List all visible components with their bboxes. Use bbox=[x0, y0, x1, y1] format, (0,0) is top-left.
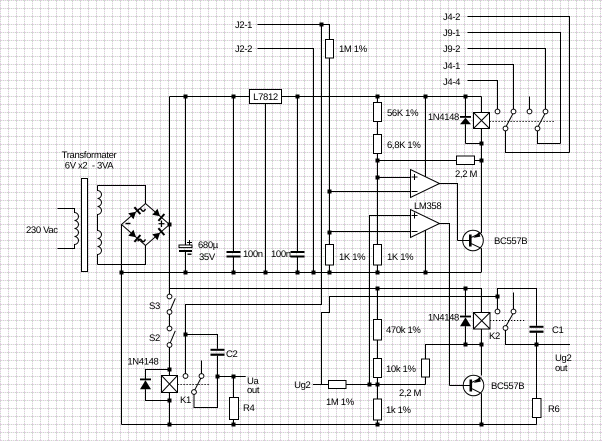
svg-text:6,8K 1%: 6,8K 1% bbox=[387, 140, 421, 151]
resistor 2,2M bottom bbox=[422, 359, 430, 377]
wire common1 to J4-2 bbox=[506, 131, 570, 153]
node 1K second at ground bbox=[376, 271, 380, 275]
wire Ug2 node jog to K2 switch bbox=[322, 297, 498, 385]
wire 2,2M top right lead bbox=[475, 160, 482, 162]
node rail 377 bbox=[376, 95, 380, 99]
switch K2 lever bbox=[506, 314, 513, 326]
switch lever 2 bbox=[538, 114, 545, 127]
node op2 minus junction bbox=[328, 231, 332, 235]
bridge diode D3 bottom-left bbox=[128, 230, 140, 242]
svg-text:6V x2 - 3VA: 6V x2 - 3VA bbox=[65, 161, 114, 172]
svg-text:L7812: L7812 bbox=[253, 92, 278, 103]
wire K2 coil bottom bbox=[481, 329, 483, 376]
wire Ug2 net to C1 top bbox=[498, 289, 537, 326]
wire op2 V- pin to ground bbox=[425, 231, 427, 273]
diode 1N4148 top-right bbox=[460, 97, 471, 144]
wire secondary top to bridge AC top bbox=[98, 186, 146, 204]
transformer primary winding bbox=[58, 209, 79, 249]
svg-text:R4: R4 bbox=[243, 403, 255, 414]
wire S3 to S2 bbox=[169, 314, 171, 326]
relay coil K top bbox=[474, 113, 490, 129]
resistor 1M 1% top bbox=[326, 40, 334, 59]
wire 1K second bottom bbox=[377, 265, 379, 273]
capacitor C2 bbox=[211, 349, 225, 377]
node R4 top junction bbox=[232, 375, 236, 379]
switch contact circle J9-2 bbox=[543, 109, 548, 114]
transistor Q1 BC557B bbox=[463, 230, 484, 272]
svg-text:1K 1%: 1K 1% bbox=[387, 252, 414, 263]
node L7812 gnd at ground rail bbox=[264, 271, 268, 275]
switch lever 1 bbox=[506, 114, 513, 127]
wire 1k bottom lead bbox=[377, 420, 379, 425]
node op1 plus junction bbox=[376, 176, 380, 180]
wire Ug2 stub bbox=[313, 384, 329, 386]
svg-text:1N4148: 1N4148 bbox=[127, 357, 158, 368]
switch K1 contact left bbox=[183, 374, 188, 379]
wire diode anode to coil bbox=[466, 143, 482, 145]
mechanical link K1 dotted bbox=[178, 384, 211, 386]
wire 2,2M bottom top lead bbox=[426, 345, 482, 385]
op-amp U1A triangle bbox=[411, 170, 440, 198]
wire R6 bottom lead bbox=[536, 418, 538, 425]
label 680u plus sign bbox=[187, 240, 192, 245]
node K2 diode tap bbox=[464, 287, 468, 291]
svg-text:J2-2: J2-2 bbox=[235, 44, 252, 55]
wire 56K top lead bbox=[377, 97, 379, 103]
wire op2 output bbox=[440, 224, 450, 386]
bridge rectifier diamond bbox=[122, 204, 170, 246]
wire K2 contact left stub bbox=[497, 297, 499, 310]
node K1 coil diode top junction bbox=[168, 368, 172, 372]
node rail 185 bbox=[184, 95, 188, 99]
svg-text:1K 1%: 1K 1% bbox=[339, 252, 366, 263]
node 100n-1 at ground bbox=[232, 271, 236, 275]
node K1 at bottom rail bbox=[168, 423, 172, 427]
wire R4 top lead bbox=[233, 377, 235, 398]
wire K1 contact right stub bbox=[201, 361, 203, 374]
wire J2-2 bbox=[258, 49, 314, 273]
node 10k 1k junction bbox=[376, 383, 380, 387]
node coil diode junction bbox=[480, 142, 484, 146]
label + bridge plus bbox=[159, 221, 165, 228]
wire stub unconnected contact bbox=[529, 97, 531, 110]
node 680u at ground bbox=[184, 271, 188, 275]
label op1 minus input bbox=[412, 191, 418, 193]
node 1k at bottom rail bbox=[376, 423, 380, 427]
node C1 bottom junction bbox=[535, 343, 539, 347]
resistor 1k 1% bottom bbox=[374, 399, 382, 420]
resistor 470k 1% bbox=[374, 320, 382, 341]
wire secondary bottom to bridge AC bottom bbox=[98, 246, 146, 265]
resistor 56K 1% bbox=[374, 103, 382, 122]
wire rail to coil top bbox=[481, 97, 483, 113]
label ~ top bbox=[138, 209, 146, 211]
switch K1 lever bbox=[195, 378, 201, 390]
wire K2 contact right stub bbox=[513, 293, 515, 310]
svg-text:470k 1%: 470k 1% bbox=[386, 325, 421, 336]
wire bridge minus to ground rail bbox=[121, 225, 123, 425]
svg-text:J4-2: J4-2 bbox=[443, 12, 460, 23]
switch K2 contact right bbox=[511, 309, 516, 314]
wire 2,2M top left lead bbox=[378, 160, 457, 162]
node C2 bottom junction bbox=[216, 375, 220, 379]
wire op1 output bbox=[440, 184, 458, 241]
node rail 425 bbox=[424, 95, 428, 99]
node 1K first at ground bbox=[328, 271, 332, 275]
node op V- at ground rail bbox=[424, 271, 428, 275]
svg-text:out: out bbox=[555, 363, 568, 374]
wire J4-4 bbox=[468, 81, 498, 110]
wire bottom ground rail bbox=[122, 424, 537, 426]
node 2,2M wire junction bbox=[376, 159, 380, 163]
node 100n-2 at ground bbox=[296, 271, 300, 275]
wire Ua out bbox=[218, 376, 246, 378]
switch S2 bbox=[167, 326, 175, 347]
svg-text:100n: 100n bbox=[271, 249, 291, 260]
label op2 plus input bbox=[412, 213, 418, 219]
transformer secondary winding bbox=[98, 186, 102, 265]
wire S2 to K1 coil bbox=[169, 347, 171, 375]
resistor 1K 1% second bbox=[374, 245, 382, 266]
transformer core bbox=[82, 179, 88, 272]
switch S3 bbox=[167, 294, 175, 314]
wire 1M bottom bus to 1K bbox=[329, 58, 331, 245]
svg-text:35V: 35V bbox=[199, 252, 216, 263]
svg-text:J9-2: J9-2 bbox=[443, 44, 460, 55]
mechanical link K2 dotted bbox=[490, 320, 526, 322]
wire op1 minus input bbox=[330, 191, 411, 193]
switch contact circle J4-1 bbox=[511, 109, 516, 114]
wire op1 out to Q1 base bbox=[458, 240, 470, 242]
label op2 minus input bbox=[412, 231, 418, 233]
capacitor C 100n second bbox=[291, 97, 305, 273]
wire K1 coil bottom to rail bbox=[169, 393, 171, 425]
wire J2-1 bus down bbox=[186, 25, 322, 374]
svg-text:56K 1%: 56K 1% bbox=[387, 108, 419, 119]
regulator U2 L7812 bbox=[250, 90, 282, 104]
wire 1K first bottom bbox=[329, 265, 331, 273]
wire Ug2 node horizontal bbox=[346, 384, 426, 386]
switch K2 contact left bbox=[495, 309, 500, 314]
svg-text:1N4148: 1N4148 bbox=[428, 112, 459, 123]
svg-text:C1: C1 bbox=[552, 325, 564, 336]
op-amp U1B triangle bbox=[411, 210, 440, 238]
node rail 297 bbox=[296, 95, 300, 99]
node R4 at bottom rail bbox=[232, 423, 236, 427]
svg-text:100n: 100n bbox=[243, 249, 263, 260]
svg-text:Ug2: Ug2 bbox=[294, 380, 310, 391]
svg-text:1M 1%: 1M 1% bbox=[326, 397, 355, 408]
bridge diode D1 top-left bbox=[128, 207, 140, 219]
svg-text:BC557B: BC557B bbox=[494, 236, 527, 247]
wire C2 branch bbox=[186, 335, 218, 349]
svg-text:1k 1%: 1k 1% bbox=[386, 405, 412, 416]
svg-text:2,2 M: 2,2 M bbox=[455, 169, 477, 180]
wire op2 plus input from x370 bus bbox=[370, 216, 411, 385]
node Q2 at bottom rail bbox=[480, 423, 484, 427]
wire 1k top lead bbox=[377, 385, 379, 400]
relay coil K2 bbox=[474, 313, 491, 330]
resistor 2,2 M top bbox=[457, 156, 475, 165]
svg-text:680µ: 680µ bbox=[198, 240, 219, 251]
wire K1 common to Ua node bbox=[194, 377, 218, 408]
svg-text:C2: C2 bbox=[226, 349, 238, 360]
svg-text:LM358: LM358 bbox=[414, 201, 441, 212]
diode 1N4148 K1 bbox=[140, 370, 170, 401]
capacitor C 680u 35V electrolytic bbox=[179, 97, 192, 273]
svg-text:S3: S3 bbox=[149, 301, 160, 312]
node J2-2 at ground rail bbox=[312, 271, 316, 275]
svg-text:2,2 M: 2,2 M bbox=[399, 388, 421, 399]
wire 470k to 10k bbox=[377, 340, 379, 359]
wire J9-1 bbox=[468, 33, 561, 144]
mechanical link relay top dotted bbox=[490, 121, 555, 123]
svg-text:230 Vac: 230 Vac bbox=[26, 225, 58, 236]
wire op1 V+ pin bbox=[425, 97, 427, 177]
diode 1N4148 K2 bbox=[460, 289, 471, 345]
svg-text:1N4148: 1N4148 bbox=[428, 313, 459, 324]
svg-text:R6: R6 bbox=[548, 404, 560, 415]
wire 56K to 6.8K bbox=[377, 122, 379, 135]
switch contact circle nc bbox=[527, 109, 532, 114]
wire J2-1 bbox=[258, 25, 330, 40]
svg-text:BC557B: BC557B bbox=[491, 381, 524, 392]
wire 10k bottom lead bbox=[377, 378, 379, 385]
node K2 coil bottom junction bbox=[480, 343, 484, 347]
node K1 coil diode bottom junction bbox=[168, 399, 172, 403]
resistor 1K 1% first bbox=[326, 245, 334, 266]
wire R6 top lead bbox=[536, 345, 538, 399]
svg-text:K2: K2 bbox=[489, 331, 500, 342]
resistor 1M 1% bottom bbox=[329, 381, 347, 389]
svg-text:S2: S2 bbox=[149, 333, 160, 344]
bridge diode D4 bottom-right bbox=[152, 228, 164, 240]
capacitor C1 bbox=[530, 326, 544, 345]
svg-text:10k 1%: 10k 1% bbox=[386, 364, 416, 375]
wire J4-1 bbox=[468, 65, 514, 110]
wire op1 plus input bbox=[378, 177, 411, 179]
resistor 10k 1% bbox=[374, 359, 382, 378]
transistor Q2 BC557B bbox=[463, 375, 484, 424]
wire +12V rail top bbox=[170, 96, 482, 98]
node C2 branch junction bbox=[184, 333, 188, 337]
node rail 233 bbox=[232, 95, 236, 99]
resistor 6,8K 1% bbox=[374, 135, 382, 154]
wire J4-2 bbox=[468, 17, 570, 153]
svg-text:J4-4: J4-4 bbox=[443, 77, 460, 88]
switch K2 common circle bbox=[503, 326, 508, 331]
wire coil bottom feedback bus bbox=[481, 129, 483, 234]
wire R4 bottom lead bbox=[233, 420, 235, 425]
wire K2 common to out bbox=[506, 330, 571, 344]
wire 470k top lead bbox=[377, 289, 379, 320]
wire raw plus to K2 coil long bbox=[170, 289, 482, 313]
wire common2 to J9-1 bbox=[538, 131, 561, 144]
node rail 465 bbox=[464, 95, 468, 99]
svg-text:K1: K1 bbox=[180, 395, 191, 406]
svg-text:1M 1%: 1M 1% bbox=[339, 44, 368, 55]
label ~ bottom bbox=[138, 239, 146, 241]
label 680u minus sign bbox=[188, 253, 192, 255]
switch common circle 2 bbox=[535, 126, 540, 131]
svg-text:Transformater: Transformater bbox=[62, 150, 117, 161]
node K2 throw junction bbox=[496, 295, 500, 299]
node J2-1 junction bbox=[320, 23, 324, 27]
switch K1 contact right bbox=[199, 374, 204, 379]
capacitor C 100n first bbox=[227, 97, 241, 273]
node 470k tap bbox=[376, 287, 380, 291]
bridge diode D2 top-right bbox=[152, 209, 164, 221]
resistor R4 bbox=[230, 398, 239, 420]
switch common circle 1 bbox=[503, 126, 508, 131]
wire +raw bus x169 bbox=[169, 97, 171, 295]
node op1 minus junction bbox=[328, 190, 332, 194]
svg-text:out: out bbox=[247, 385, 260, 396]
node bridge plus junction bbox=[168, 223, 172, 227]
wire L7812 ground pin bbox=[265, 104, 267, 273]
node K2 diode bottom junction bbox=[464, 343, 468, 347]
switch K1 common circle bbox=[192, 390, 197, 395]
svg-text:J2-1: J2-1 bbox=[235, 20, 252, 31]
label - bridge minus bbox=[126, 223, 131, 225]
node 2,2M right junction bbox=[480, 159, 484, 163]
svg-text:J9-1: J9-1 bbox=[443, 28, 460, 39]
node ground rail left junction bbox=[120, 271, 124, 275]
label op1 plus input bbox=[412, 174, 418, 180]
relay coil K1 bbox=[162, 376, 178, 393]
wire op2 minus input bbox=[330, 231, 411, 233]
wire 6.8K bottom bus to 1K second bbox=[377, 154, 379, 245]
node x370 bus at Ug2 bbox=[368, 383, 372, 387]
switch contact circle J4-4 bbox=[495, 109, 500, 114]
wire op2 out to Q2 base bbox=[450, 385, 470, 387]
resistor R6 bbox=[533, 399, 542, 418]
wire ground rail bbox=[122, 272, 482, 274]
svg-text:J4-1: J4-1 bbox=[443, 61, 460, 72]
wire J9-2 bbox=[468, 49, 546, 110]
